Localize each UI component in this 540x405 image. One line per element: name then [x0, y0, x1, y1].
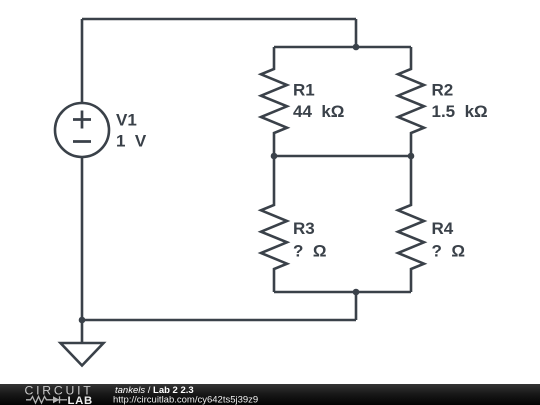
svg-text:R2: R2: [432, 81, 454, 100]
svg-text:R4: R4: [432, 219, 454, 238]
svg-text:R3: R3: [293, 219, 315, 238]
svg-text:V1: V1: [116, 111, 137, 130]
svg-text:R1: R1: [293, 81, 315, 100]
svg-text:? Ω: ? Ω: [293, 242, 326, 261]
svg-text:? Ω: ? Ω: [432, 242, 465, 261]
svg-text:1 V: 1 V: [116, 132, 147, 151]
svg-text:LAB: LAB: [68, 395, 93, 405]
svg-text:1.5 kΩ: 1.5 kΩ: [432, 102, 488, 121]
svg-text:44 kΩ: 44 kΩ: [293, 102, 344, 121]
svg-text:http://circuitlab.com/cy642ts5: http://circuitlab.com/cy642ts5j39z9: [113, 395, 258, 405]
